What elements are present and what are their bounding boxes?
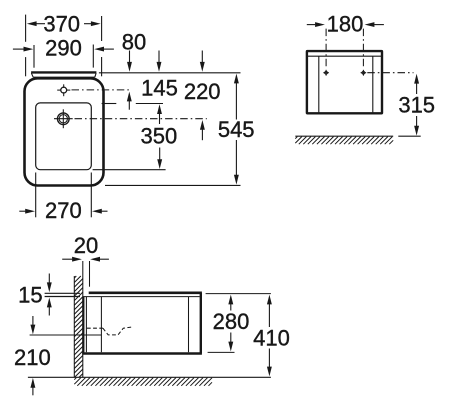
svg-text:350: 350 <box>141 123 178 148</box>
dim 280/410: top extension line <box>206 293 271 295</box>
dim 290: right arrow (outside) <box>94 47 104 52</box>
rear view: body outline <box>307 51 382 113</box>
dim 180: right arrow (outside) <box>365 22 375 27</box>
dim 545: up arrow <box>234 74 239 84</box>
svg-text:220: 220 <box>184 79 221 104</box>
drain centerline (dash-dot right) <box>75 118 207 120</box>
basin bottom line extended right (350 terminator) <box>93 169 166 171</box>
dim 20: right extension line <box>89 261 91 287</box>
dim 15: down arrow <box>48 274 50 284</box>
svg-text:370: 370 <box>43 11 80 36</box>
svg-text:280: 280 <box>213 309 250 334</box>
rear view: floor line right segment <box>398 135 420 137</box>
rear view: ground hatching <box>295 137 393 145</box>
rear view: left fixing hole <box>324 71 328 75</box>
svg-text:545: 545 <box>218 117 255 142</box>
tap hole centerline (dash-dot right) <box>72 89 132 91</box>
plan view: rear tap ledge <box>31 71 96 73</box>
side view: bidet front edge (bold) <box>200 293 202 354</box>
dim 270: extension lines <box>35 173 37 218</box>
side view: wall hatching <box>74 276 83 377</box>
dim 410: up arrow <box>267 295 272 305</box>
dim 180: left arrow (outside) <box>315 22 325 27</box>
dim 315: up arrow <box>414 74 419 84</box>
dim 290: left arrow (outside) <box>24 47 34 52</box>
svg-text:410: 410 <box>253 325 290 350</box>
dim 220: down arrow at top edge <box>201 51 203 63</box>
svg-text:270: 270 <box>45 198 82 223</box>
side view: floor hatching <box>74 378 212 386</box>
rear view: ground line <box>295 135 393 137</box>
dim 270: right arrow (outside) <box>92 209 102 214</box>
dim 270: left arrow (outside) <box>25 209 35 214</box>
dim 545: down arrow <box>235 140 237 176</box>
dim 220: up arrow at drain centerline <box>200 120 205 130</box>
rear view: right fixing hole <box>362 71 366 75</box>
tap hole <box>61 87 67 93</box>
dim 290: extension lines <box>33 45 35 68</box>
dim 80: down arrow at top edge <box>129 51 131 63</box>
side view: hidden waste outlet (dashed) <box>87 327 103 329</box>
rear view: inner side lines <box>318 56 320 112</box>
dim 370: extension lines <box>25 15 27 42</box>
plan view: inner basin rim <box>36 103 92 170</box>
svg-text:180: 180 <box>327 12 364 37</box>
dim 410: down arrow <box>268 349 270 368</box>
bottom edge reference line extended right <box>105 184 241 186</box>
dim 210: up arrow at floor <box>30 378 35 388</box>
svg-text:145: 145 <box>141 76 178 101</box>
dim 350: down arrow at basin bottom line <box>159 148 161 160</box>
side view: bidet rear edge (bold, on wall) <box>82 296 84 353</box>
dim 280: up arrow <box>228 295 233 305</box>
svg-text:20: 20 <box>74 233 98 258</box>
dim 370: left arrow <box>27 21 37 26</box>
svg-text:290: 290 <box>45 35 82 60</box>
side view: inner profile lines <box>85 297 87 353</box>
dim 15: up arrow <box>47 298 52 308</box>
svg-text:315: 315 <box>398 93 435 118</box>
dim 145: down arrow at top edge <box>158 51 160 63</box>
side view: outlet axis line (210 reference) <box>30 334 102 336</box>
svg-text:210: 210 <box>14 345 51 370</box>
side view: bidet top edge (bold) <box>89 291 202 294</box>
dim 210: down arrow <box>32 316 34 325</box>
dim 315: down arrow <box>416 116 418 127</box>
drain <box>57 113 69 125</box>
dim 20: right arrow (outside) <box>90 257 100 262</box>
dim 280: bottom extension line <box>208 351 235 353</box>
rear view: hole centerline extended right (dash-dot) <box>367 72 413 74</box>
plan view: bidet body outline <box>25 78 104 185</box>
side view: floor line <box>28 376 271 378</box>
rear view: ledge underside line <box>308 55 381 57</box>
svg-text:15: 15 <box>18 282 42 307</box>
side view: wall outline lines <box>73 276 75 377</box>
side view: ledge underside line <box>83 296 200 298</box>
side view: bidet bottom edge (bold) <box>82 352 202 355</box>
dim 280: down arrow <box>230 333 232 343</box>
dim 20: left arrow (outside) <box>72 257 82 262</box>
svg-text:80: 80 <box>122 30 146 55</box>
dim 145: up arrow at terminator <box>157 104 162 114</box>
145 terminator line segments (basin top level) <box>102 103 117 105</box>
top edge reference line extended right <box>99 72 241 74</box>
rear view: fixing hole centerlines (dash-dot vertical) <box>325 29 327 67</box>
dim 80: up arrow at tap centerline <box>127 92 132 102</box>
dim 370: right arrow <box>91 21 101 26</box>
dim 15: extension lines <box>45 292 80 294</box>
